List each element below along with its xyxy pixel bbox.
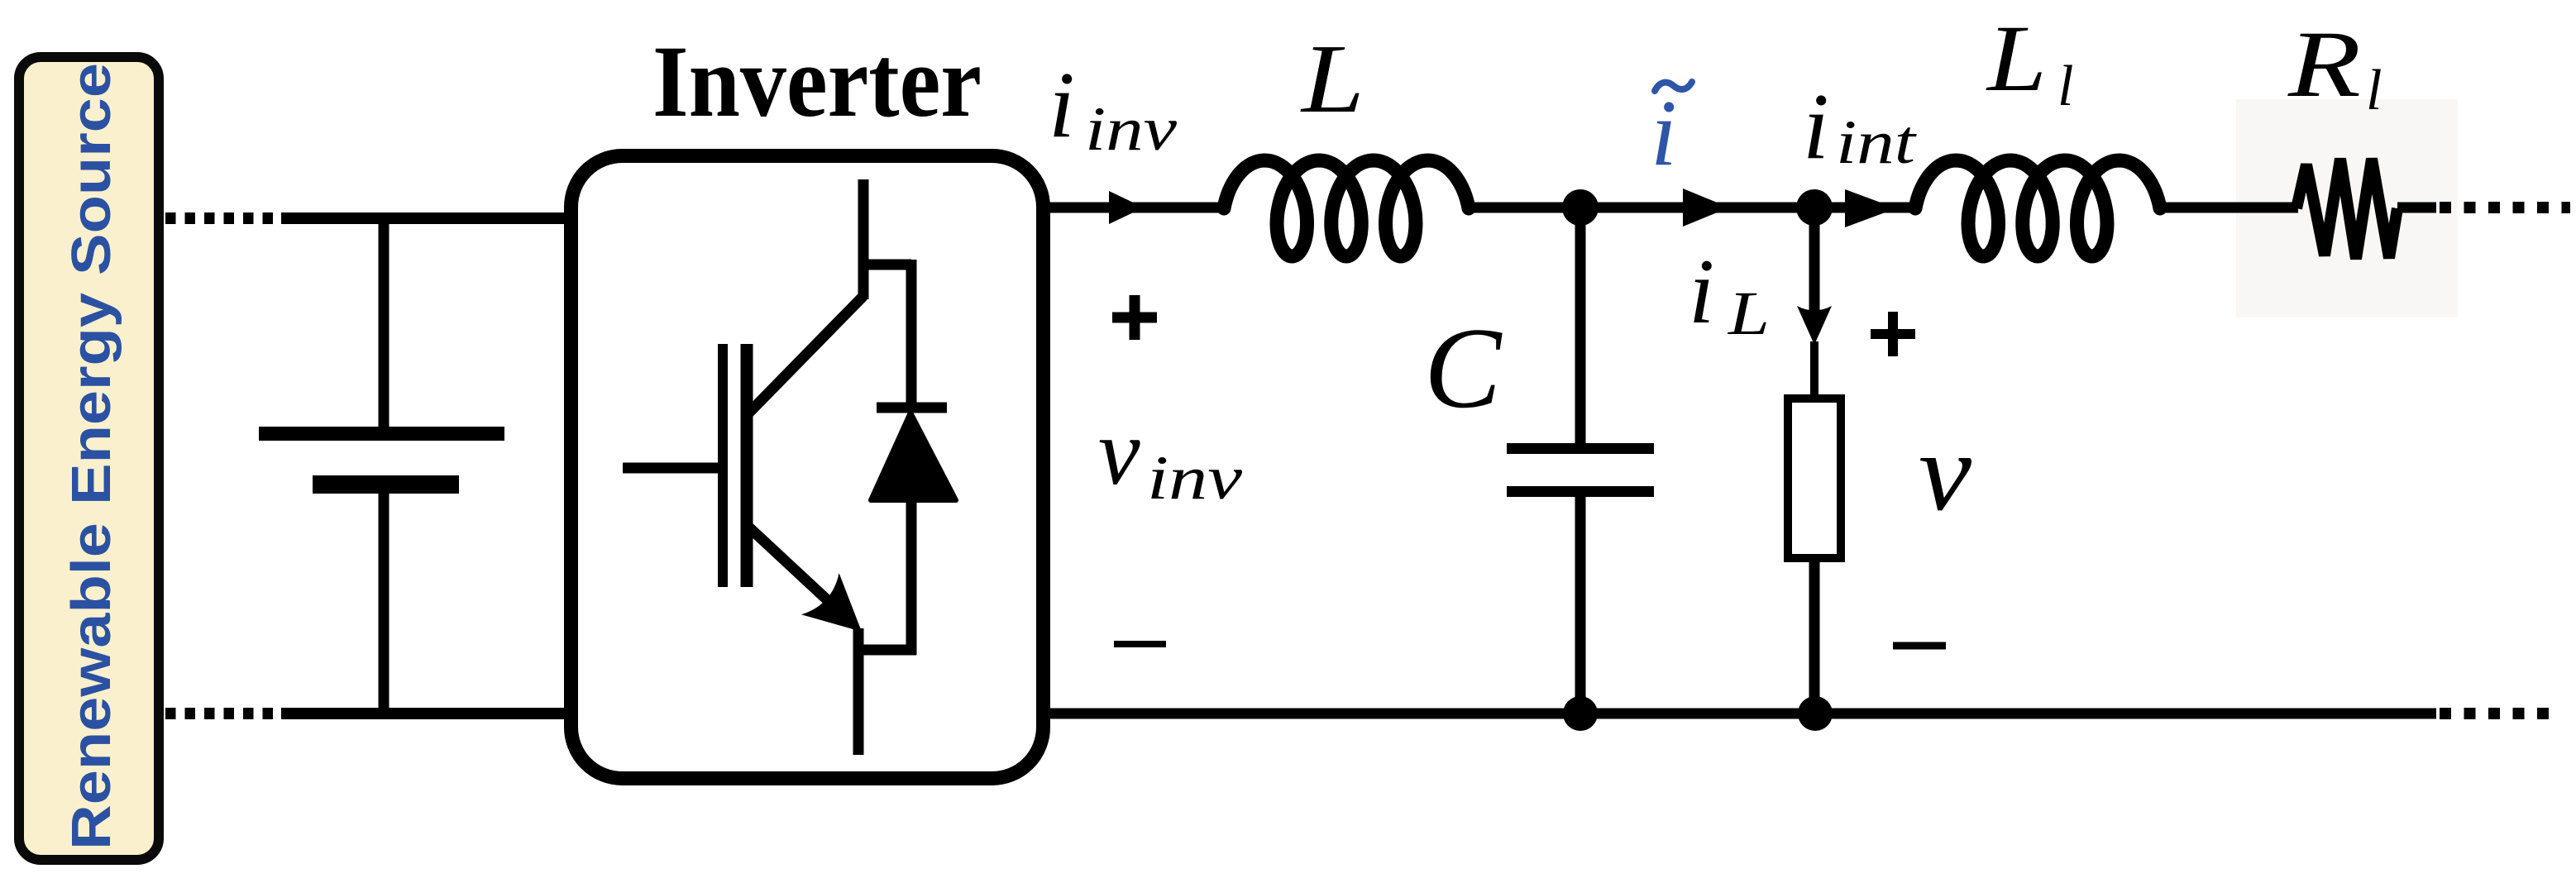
svg-text:int: int [1836,108,1918,177]
svg-text:inv: inv [1085,95,1178,164]
svg-text:i: i [1689,241,1714,343]
svg-text:i: i [1803,74,1829,179]
svg-text:L: L [1728,279,1770,348]
svg-text:l: l [2057,55,2073,118]
svg-text:L: L [1986,6,2047,111]
svg-text:Inverter: Inverter [652,25,982,138]
svg-text:C: C [1424,304,1503,432]
svg-text:v: v [1098,399,1140,504]
svg-text:R: R [2287,12,2361,117]
svg-text:v: v [1919,411,1971,534]
svg-text:Renewable Energy Source: Renewable Energy Source [60,63,122,850]
svg-text:l: l [2366,59,2382,122]
svg-text:L: L [1300,24,1364,133]
svg-text:inv: inv [1147,444,1243,513]
svg-text:i: i [1049,52,1075,157]
svg-text:i: i [1651,80,1677,185]
